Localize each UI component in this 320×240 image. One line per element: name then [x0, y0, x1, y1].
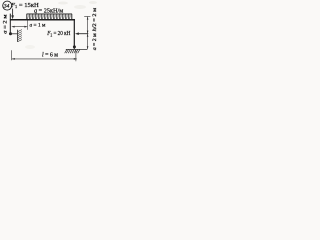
svg-text:F2 = 20 кН: F2 = 20 кН	[46, 31, 70, 37]
left column	[9, 14, 11, 34]
ground hatching	[65, 50, 80, 54]
extension line for a	[27, 20, 29, 29]
svg-text:a = 2 м: a = 2 м	[92, 33, 98, 50]
bottom dimension extension left	[11, 50, 13, 60]
bottom dimension line l	[12, 58, 77, 60]
right support pin	[73, 45, 76, 48]
force F2 label	[46, 31, 70, 37]
left wall hatching	[18, 30, 22, 42]
problem number circle 34	[3, 1, 12, 10]
load q label	[34, 9, 63, 15]
left support wall	[17, 30, 19, 42]
svg-text:h/2 = 2 м: h/2 = 2 м	[92, 8, 98, 32]
distributed load strip	[27, 14, 72, 19]
force F2 arrow	[75, 32, 88, 35]
svg-text:34: 34	[3, 4, 10, 10]
bottom dimension extension right	[75, 50, 77, 61]
svg-text:a = 2 м: a = 2 м	[3, 14, 9, 33]
left vertical dimension label a=2m (rotated)	[3, 14, 9, 33]
scan smudges	[58, 2, 68, 5]
bottom dimension label l=6m	[42, 53, 58, 59]
right lower dimension label (rotated)	[92, 33, 98, 50]
svg-text:l = 6 м: l = 6 м	[42, 53, 58, 59]
svg-text:a = 1 м: a = 1 м	[30, 22, 46, 28]
left support link	[11, 33, 18, 35]
beam top chord	[10, 19, 75, 21]
left support pin	[9, 32, 12, 35]
right dimension line	[84, 17, 90, 50]
dimension label a=1m	[30, 22, 46, 28]
force F1 label	[10, 2, 39, 9]
dimension a=1m arrows	[12, 20, 28, 29]
right upper dimension label (rotated)	[92, 8, 98, 32]
right column	[73, 20, 75, 49]
ground line	[66, 48, 87, 50]
force F1 arrow	[11, 9, 14, 20]
